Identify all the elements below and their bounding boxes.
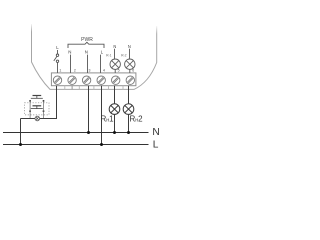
switch S1 (wall switch on terminal 1): [54, 54, 59, 63]
svg-text:1: 1: [59, 69, 61, 73]
svg-text:N: N: [152, 127, 159, 138]
wire switch to terminal 1: [57, 63, 59, 73]
svg-text:N: N: [128, 44, 131, 49]
lamp Rn2 (load 2): [123, 104, 134, 115]
svg-text:R-1: R-1: [106, 53, 112, 57]
svg-text:6: 6: [132, 69, 134, 73]
lamp R-1 (top): [110, 59, 120, 69]
screw terminal 6: [126, 76, 134, 84]
svg-text:3: 3: [89, 69, 91, 73]
N rail: [3, 132, 149, 134]
svg-text:2: 2: [74, 69, 76, 73]
wire terminal 1 down to button unit: [47, 86, 57, 119]
wire terminal 3 down to N rail: [88, 86, 90, 133]
svg-text:N: N: [68, 49, 71, 54]
svg-text:4: 4: [103, 69, 105, 73]
svg-text:N: N: [113, 44, 116, 49]
svg-text:5: 5: [118, 69, 120, 73]
junction dot terminal4/L: [100, 143, 103, 146]
device outline (module enclosure): [30, 23, 159, 89]
wire lamp R-2 to terminal 6: [129, 69, 131, 73]
screw terminal 5: [112, 76, 120, 84]
wire terminal 6 down to lamp Rn2: [128, 86, 130, 104]
junction dot terminal3/N: [87, 131, 90, 134]
junction dot lamp Rn2/N: [127, 131, 130, 134]
terminal strip box: [51, 73, 135, 86]
contacts of button S down: [29, 110, 31, 112]
wire terminal 5 down to lamp Rn1: [114, 86, 116, 104]
wire terminal 4 down to L rail: [101, 86, 103, 145]
push-button S up (top): [31, 96, 43, 99]
junction dot button unit/L: [19, 143, 22, 146]
svg-text:L: L: [153, 140, 159, 151]
lamp backlight (button unit): [35, 116, 40, 121]
screw terminal 1: [53, 76, 61, 84]
lamp R-2 (top): [125, 59, 135, 69]
wire button unit to L rail: [20, 119, 22, 145]
wire L to switch: [57, 50, 59, 54]
screw terminal 2: [68, 76, 76, 84]
wire N to terminal 3: [87, 55, 89, 73]
junction dot lamp Rn1/N: [113, 131, 116, 134]
screw terminal 4: [97, 76, 105, 84]
contacts of button S up: [29, 100, 31, 102]
svg-text:N: N: [85, 49, 88, 54]
push-button S down (inside box): [31, 106, 43, 109]
wire button unit horizontal: [21, 118, 36, 120]
terminal strip tabs: [65, 86, 123, 90]
wire N to lamp R-2: [129, 49, 131, 59]
L rail: [3, 144, 149, 146]
brace PWR: [68, 42, 104, 48]
wire L to terminal 4: [100, 55, 102, 73]
wire N to terminal 2: [70, 55, 72, 73]
wire right contact column: [43, 102, 45, 119]
button unit box (dashed): [25, 103, 50, 115]
wire lamp Rn1 to N rail: [114, 114, 116, 132]
lamp Rn1 (load 1): [109, 104, 120, 115]
svg-text:R-2: R-2: [121, 53, 127, 57]
wire left contact column: [29, 102, 31, 119]
wire lamp R-1 to terminal 5: [114, 69, 116, 73]
wire N to lamp R-1: [114, 49, 116, 59]
wire lamp Rn2 to N rail: [128, 114, 130, 132]
screw terminal 3: [82, 76, 90, 84]
